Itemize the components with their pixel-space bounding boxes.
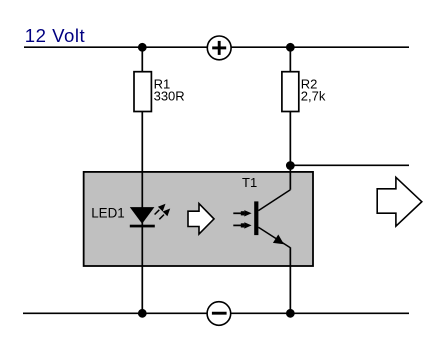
wire emitter vertical: [289, 247, 291, 313]
optocoupler body: [84, 172, 313, 266]
wire R2/collector branch vertical: [289, 47, 291, 190]
node junction collector out: [286, 161, 295, 170]
node junction bottom right: [286, 309, 295, 318]
LED LED1: [130, 204, 170, 228]
supply terminal plus: [207, 36, 231, 60]
wire bottom rail: [23, 312, 409, 314]
output arrow: [377, 177, 422, 226]
transistor T1: [233, 190, 290, 248]
supply terminal minus: [207, 302, 231, 326]
resistor R1: [134, 72, 185, 112]
svg-text:2,7k: 2,7k: [301, 89, 326, 104]
node junction top left: [138, 43, 147, 52]
resistor R2: [282, 72, 326, 112]
svg-text:12 Volt: 12 Volt: [25, 25, 86, 46]
coupling arrow: [188, 204, 214, 235]
node junction top right: [286, 43, 295, 52]
svg-text:330R: 330R: [154, 89, 185, 104]
node junction bottom left: [138, 309, 147, 318]
svg-text:T1: T1: [242, 175, 257, 190]
svg-text:LED1: LED1: [91, 205, 125, 220]
wire collector output horizontal: [290, 164, 409, 166]
wire R1/LED branch vertical: [141, 47, 143, 313]
wire top +12V rail: [24, 46, 409, 48]
